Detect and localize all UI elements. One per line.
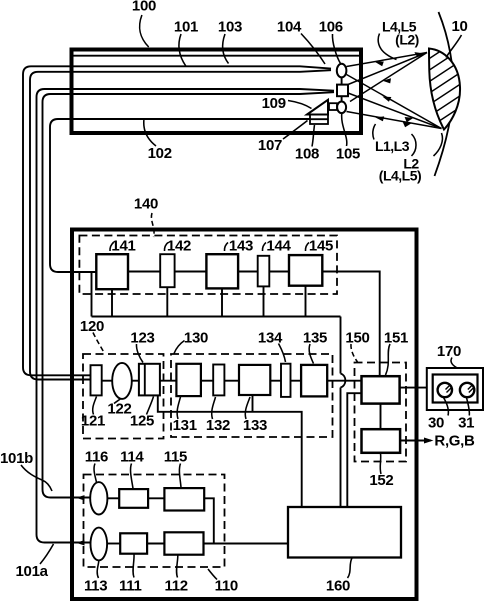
svg-text:30: 30 <box>428 415 444 432</box>
svg-text:150: 150 <box>345 330 369 347</box>
svg-text:10: 10 <box>451 18 467 35</box>
svg-text:143: 143 <box>229 238 253 255</box>
svg-text:R,G,B: R,G,B <box>434 433 475 450</box>
svg-text:141: 141 <box>111 238 135 255</box>
svg-text:100: 100 <box>132 0 156 15</box>
svg-text:142: 142 <box>167 238 191 255</box>
svg-text:(L2): (L2) <box>395 32 419 48</box>
svg-text:145: 145 <box>309 238 333 255</box>
svg-text:101b: 101b <box>0 450 33 467</box>
svg-text:101a: 101a <box>16 563 49 580</box>
svg-text:113: 113 <box>84 578 107 595</box>
svg-text:108: 108 <box>295 146 319 163</box>
svg-text:121: 121 <box>81 413 105 430</box>
svg-text:109: 109 <box>262 95 286 112</box>
svg-text:116: 116 <box>85 449 108 466</box>
svg-text:105: 105 <box>336 146 360 163</box>
svg-text:131: 131 <box>173 417 197 434</box>
svg-text:115: 115 <box>164 449 187 466</box>
svg-text:133: 133 <box>243 417 267 434</box>
svg-text:31: 31 <box>458 415 474 432</box>
svg-text:125: 125 <box>130 413 154 430</box>
svg-text:123: 123 <box>130 330 154 347</box>
svg-text:101: 101 <box>174 19 198 36</box>
svg-text:110: 110 <box>215 578 238 595</box>
svg-text:114: 114 <box>120 449 144 466</box>
svg-text:120: 120 <box>80 318 104 335</box>
svg-text:152: 152 <box>369 472 393 489</box>
svg-text:134: 134 <box>258 330 283 347</box>
svg-text:132: 132 <box>206 417 230 434</box>
svg-text:130: 130 <box>184 330 208 347</box>
svg-text:160: 160 <box>326 578 350 595</box>
svg-text:170: 170 <box>437 343 461 360</box>
svg-text:111: 111 <box>119 578 141 595</box>
svg-text:L1,L3: L1,L3 <box>375 138 410 154</box>
svg-text:106: 106 <box>319 19 343 36</box>
svg-text:140: 140 <box>134 196 158 213</box>
svg-text:151: 151 <box>384 330 408 347</box>
svg-text:107: 107 <box>258 137 282 154</box>
svg-text:112: 112 <box>165 578 188 595</box>
svg-text:102: 102 <box>148 145 172 162</box>
svg-text:103: 103 <box>218 19 242 36</box>
svg-text:135: 135 <box>303 330 327 347</box>
svg-text:104: 104 <box>277 19 302 36</box>
svg-text:122: 122 <box>107 401 131 418</box>
svg-text:(L4,L5): (L4,L5) <box>379 168 421 184</box>
svg-text:144: 144 <box>266 238 291 255</box>
